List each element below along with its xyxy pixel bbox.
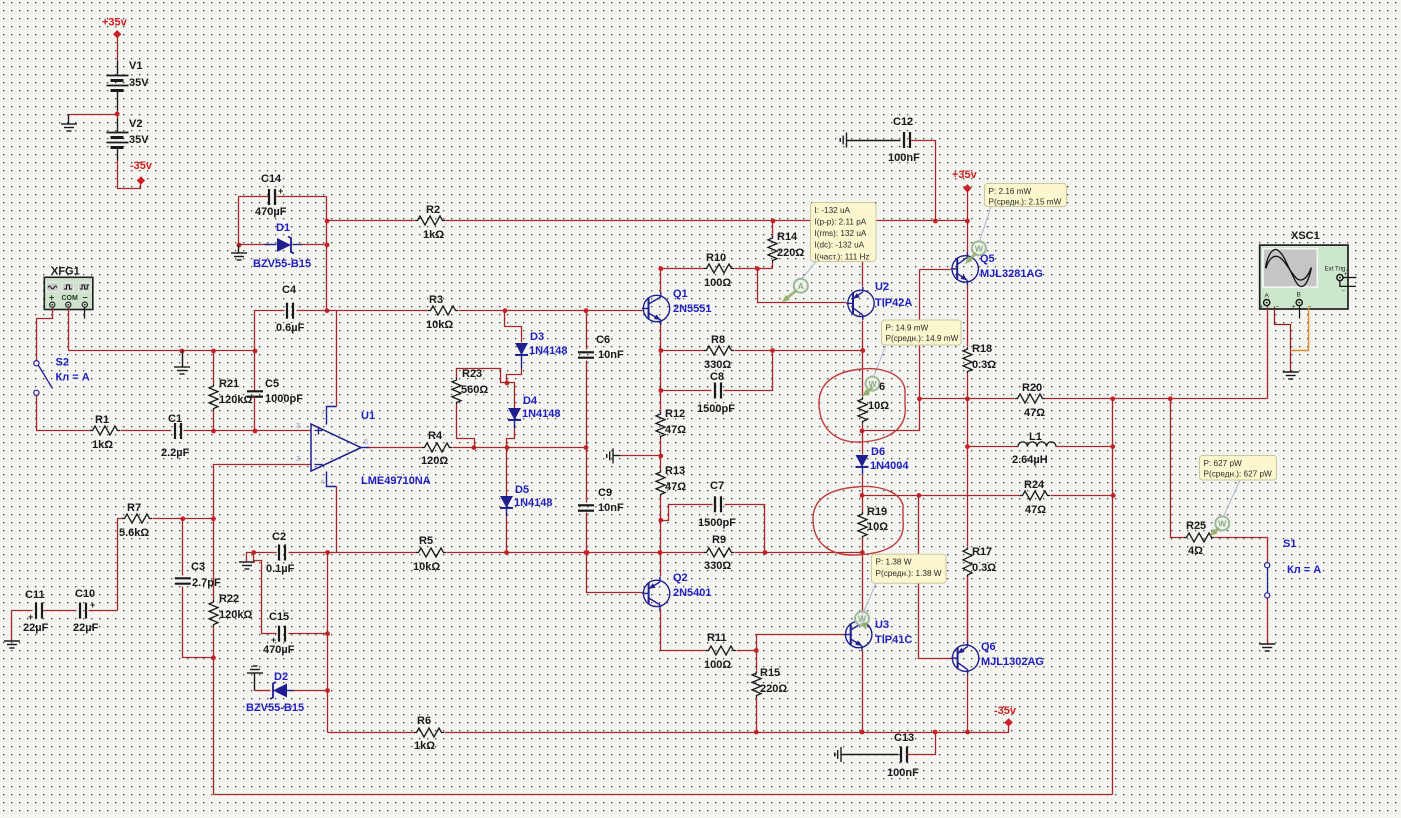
wire Q6 emitter up xyxy=(967,577,969,642)
inductor L1 xyxy=(1012,431,1056,466)
battery V1 xyxy=(107,60,150,111)
svg-text:R21: R21 xyxy=(219,378,239,390)
svg-text:+: + xyxy=(49,293,54,303)
wire L1 left xyxy=(968,446,1019,448)
svg-text:R10: R10 xyxy=(706,252,726,264)
resistor R6 xyxy=(414,715,444,752)
wire Q2 base jog xyxy=(587,553,643,593)
wire R13 bottom xyxy=(660,497,662,553)
wire R15 bottom xyxy=(756,698,758,733)
wire R23 bottom xyxy=(457,405,475,448)
wire C3 top lead xyxy=(182,519,184,576)
capacitor C3 xyxy=(175,561,221,589)
transistor Q6 MJL1302AG xyxy=(951,641,1044,675)
annotation circle around R19 xyxy=(813,487,903,556)
svg-text:R12: R12 xyxy=(665,408,685,420)
wire C8 row left xyxy=(661,390,712,392)
wire C9 bottom xyxy=(586,513,588,553)
resistor R2 xyxy=(415,204,445,241)
readout P R25 xyxy=(1200,456,1277,517)
wire C11-C10 xyxy=(45,610,77,612)
resistor R14 xyxy=(768,221,804,263)
ground C2 xyxy=(239,553,255,570)
svg-text:R11: R11 xyxy=(707,632,727,644)
wire D5 to R5 row xyxy=(506,517,508,553)
resistor R9 xyxy=(704,534,734,572)
wire C6 top xyxy=(586,311,588,350)
wire D4 branch xyxy=(507,383,515,409)
wire R21 lower lead xyxy=(213,411,215,431)
op-amp U1 bottom pin xyxy=(321,472,337,487)
svg-text:+: + xyxy=(1344,272,1348,278)
capacitor C5 xyxy=(247,378,303,405)
wire XFG1 + to S2 xyxy=(37,308,53,361)
junction R25 branch xyxy=(1168,396,1173,401)
svg-text:1500pF: 1500pF xyxy=(697,403,735,415)
wire Q5 emitter xyxy=(967,286,969,347)
ground C13 xyxy=(835,747,899,762)
wire R12-R13 xyxy=(660,439,662,471)
svg-text:P(средн.): 2.15 mW: P(средн.): 2.15 mW xyxy=(989,197,1062,206)
svg-text:1kΩ: 1kΩ xyxy=(414,740,435,752)
svg-text:D1: D1 xyxy=(276,222,290,234)
wire XSC1 B- orange xyxy=(1291,307,1309,351)
wire R2 row left xyxy=(327,220,415,222)
junction R8 row xyxy=(658,348,663,353)
zener diode D2 xyxy=(246,671,304,714)
wire C2 right xyxy=(289,552,328,554)
resistor R4 xyxy=(421,430,452,467)
junction R21 bottom xyxy=(211,429,216,434)
probe A current xyxy=(782,279,808,302)
svg-text:−: − xyxy=(1276,305,1280,311)
junction D2 on trunk xyxy=(325,688,330,693)
svg-text:10kΩ: 10kΩ xyxy=(426,319,453,331)
junction R18 on output row xyxy=(965,396,970,401)
svg-text:D6: D6 xyxy=(871,446,885,458)
capacitor C9 xyxy=(578,487,624,514)
wire C1 to U1+ xyxy=(184,430,311,432)
wire C12 to R2 row xyxy=(911,141,936,221)
zener diode D1 xyxy=(253,222,311,270)
svg-text:C9: C9 xyxy=(598,487,612,499)
svg-text:Q6: Q6 xyxy=(981,641,996,653)
wire C6-C9 mid xyxy=(586,361,588,503)
junction U2 base branch xyxy=(755,266,760,271)
transistor U2 TIP42A xyxy=(847,281,913,320)
resistor R18 xyxy=(963,343,996,374)
svg-text:C11: C11 xyxy=(25,589,45,601)
svg-text:TIP41C: TIP41C xyxy=(875,634,912,646)
wire D3 to junction xyxy=(507,369,522,383)
wire to U2 base xyxy=(758,269,847,303)
svg-text:I(p-p): 2.11 pA: I(p-p): 2.11 pA xyxy=(815,218,867,227)
resistor R3 xyxy=(426,294,458,331)
svg-text:100Ω: 100Ω xyxy=(704,277,731,289)
wire U1 pin2 row xyxy=(214,465,311,601)
junction C2 on trunk xyxy=(325,550,330,555)
svg-text:D5: D5 xyxy=(515,484,529,496)
resistor R7 xyxy=(119,502,152,539)
wire R4 row left xyxy=(369,447,423,449)
svg-text:7: 7 xyxy=(321,412,325,419)
svg-text:2.64µH: 2.64µH xyxy=(1012,454,1048,466)
svg-text:C5: C5 xyxy=(265,378,279,390)
junction Q6 base branch xyxy=(917,493,922,498)
svg-text:6: 6 xyxy=(879,381,885,393)
resistor R23 xyxy=(452,368,488,405)
resistor R10 xyxy=(704,252,734,289)
wire feedback down xyxy=(213,658,215,795)
svg-text:P: 1.38 W: P: 1.38 W xyxy=(876,558,912,567)
wire R18-R17 link xyxy=(967,399,969,547)
ground supply midpoint xyxy=(61,115,77,132)
svg-text:A: A xyxy=(798,281,804,291)
svg-text:220Ω: 220Ω xyxy=(777,247,804,259)
wire XFG1 COM down xyxy=(68,308,70,351)
transistor U3 TIP41C xyxy=(844,618,912,651)
svg-text:10Ω: 10Ω xyxy=(867,521,888,533)
svg-text:1N4148: 1N4148 xyxy=(522,408,561,420)
wire Q1 collector xyxy=(660,269,662,293)
svg-text:I(част.): 111 Hz: I(част.): 111 Hz xyxy=(815,252,870,261)
wire C13 to -35 bus xyxy=(907,733,936,755)
junction D5 on R5 row xyxy=(504,550,509,555)
svg-text:R1: R1 xyxy=(95,414,109,426)
junction C9 on R5 row xyxy=(584,550,589,555)
wire output row left xyxy=(920,398,1015,400)
wire R5 row left xyxy=(328,552,417,554)
svg-text:47Ω: 47Ω xyxy=(1025,504,1046,516)
wire C4 right xyxy=(297,310,327,312)
diode D6 1N4004 xyxy=(856,446,910,475)
op-amp U1 top pin xyxy=(321,407,337,425)
resistor R20 xyxy=(1015,382,1045,419)
svg-text:R14: R14 xyxy=(777,231,798,243)
svg-text:22µF: 22µF xyxy=(23,622,49,634)
wire XSC1 channel A xyxy=(1267,307,1269,399)
svg-text:P: 14.9 mW: P: 14.9 mW xyxy=(886,323,929,332)
wire D1 cathode to trunk xyxy=(301,244,327,246)
capacitor C4 xyxy=(276,284,305,334)
svg-text:R6: R6 xyxy=(417,715,431,727)
wire D2 anode lead xyxy=(255,690,271,692)
svg-text:1kΩ: 1kΩ xyxy=(423,229,444,241)
wire S2 to R1 xyxy=(37,396,91,431)
wire D3 branch xyxy=(505,311,522,343)
junction R7/C3 row xyxy=(211,516,216,521)
junction C4/C5 corner xyxy=(253,349,258,354)
wire +35v down to Q5 xyxy=(967,191,969,257)
wire XFG1 - stub xyxy=(84,308,86,319)
svg-text:W: W xyxy=(1218,519,1227,529)
readout P Q5 xyxy=(980,184,1067,242)
node -35v rail label xyxy=(130,160,153,185)
wire R24 right xyxy=(1051,495,1114,497)
diode D5 1N4148 xyxy=(500,484,553,517)
svg-text:R25: R25 xyxy=(1186,520,1206,532)
wire C14 right to trunk xyxy=(277,196,327,198)
junction mid ground xyxy=(658,454,663,459)
wire R10 row xyxy=(661,268,705,270)
svg-text:120kΩ: 120kΩ xyxy=(219,609,252,621)
ground D2 (inverted) xyxy=(247,666,263,691)
readout P R16 xyxy=(874,320,962,377)
wire R1 to C1 xyxy=(121,430,172,432)
resistor R8 xyxy=(704,334,734,371)
wire C15 feed xyxy=(254,553,277,634)
resistor R24 xyxy=(1020,479,1050,516)
svg-text:R23: R23 xyxy=(462,368,482,380)
junction Q1 collector R10 xyxy=(658,266,663,271)
junction C7 branch xyxy=(658,518,663,523)
wire C10 right xyxy=(89,610,118,612)
svg-text:I(dc): -132 uA: I(dc): -132 uA xyxy=(815,241,865,250)
junction C5 bottom xyxy=(253,429,258,434)
svg-text:10Ω: 10Ω xyxy=(868,400,889,412)
ground S1 xyxy=(1259,644,1275,651)
svg-text:R15: R15 xyxy=(760,667,780,679)
svg-text:MJL1302AG: MJL1302AG xyxy=(981,656,1044,668)
wire C4 riser xyxy=(255,311,285,351)
svg-text:C15: C15 xyxy=(269,611,289,623)
wire U3 collector riser xyxy=(862,553,864,619)
svg-text:R22: R22 xyxy=(219,593,239,605)
resistor R16 xyxy=(858,377,889,424)
wire C11 left xyxy=(12,610,33,612)
junction U2 emitter on R2 row xyxy=(860,219,865,224)
svg-text:R20: R20 xyxy=(1022,382,1042,394)
svg-text:Q2: Q2 xyxy=(673,572,688,584)
wire R5 row mid xyxy=(447,552,705,554)
svg-text:100nF: 100nF xyxy=(888,152,920,164)
svg-text:0.1µF: 0.1µF xyxy=(266,563,295,575)
svg-text:47Ω: 47Ω xyxy=(665,424,686,436)
ground C11 xyxy=(4,611,20,649)
wire bottom feedback bus xyxy=(214,794,1113,796)
svg-text:XSC1: XSC1 xyxy=(1291,230,1320,242)
capacitor C12 xyxy=(888,116,920,164)
svg-text:C2: C2 xyxy=(272,531,286,543)
resistor R12 xyxy=(656,408,686,439)
svg-text:47Ω: 47Ω xyxy=(665,481,686,493)
wire -35 bus right xyxy=(445,727,1009,733)
resistor R1 xyxy=(90,414,120,451)
op-amp U1 LME49710NA xyxy=(296,410,431,487)
svg-text:2N5401: 2N5401 xyxy=(673,587,712,599)
junction L1 tap xyxy=(965,444,970,449)
svg-text:120Ω: 120Ω xyxy=(421,455,448,467)
wire R9 right xyxy=(735,552,863,554)
wire U3 base xyxy=(757,635,845,651)
svg-text:2.7pF: 2.7pF xyxy=(192,577,221,589)
wire V1-V2 junction xyxy=(117,111,119,119)
wire L1 right xyxy=(1057,446,1113,448)
svg-text:+35v: +35v xyxy=(102,17,128,29)
ground input row xyxy=(174,351,190,375)
svg-text:C1: C1 xyxy=(168,413,182,425)
svg-text:10nF: 10nF xyxy=(598,349,624,361)
svg-text:R4: R4 xyxy=(428,430,443,442)
junction Q2 collector xyxy=(658,550,663,555)
svg-text:L1: L1 xyxy=(1029,431,1042,443)
diode D4 1N4148 xyxy=(508,395,561,429)
svg-text:D4: D4 xyxy=(523,395,538,407)
wire R8 row right xyxy=(735,350,863,352)
wire C14 left xyxy=(239,196,269,198)
wire R2 row right xyxy=(445,220,968,222)
transistor Q2 2N5401 xyxy=(642,572,711,610)
junction R8 on U2 collector xyxy=(860,348,865,353)
wire R3 row right to Q1 base xyxy=(459,310,643,312)
wire Q2 emitter to R11 xyxy=(661,610,707,651)
svg-text:R2: R2 xyxy=(426,204,440,216)
resistor R17 xyxy=(963,546,996,577)
wire C5 top xyxy=(254,351,256,391)
junction R19 top xyxy=(860,493,865,498)
wire trunk2 xyxy=(327,553,329,733)
svg-text:5.6kΩ: 5.6kΩ xyxy=(119,527,149,539)
svg-text:+: + xyxy=(1260,305,1264,311)
svg-text:−: − xyxy=(83,293,88,303)
transistor Q1 2N5551 xyxy=(642,288,712,325)
svg-text:470µF: 470µF xyxy=(255,206,287,218)
annotation circle around R16 xyxy=(819,369,905,442)
wire C15 right xyxy=(289,633,328,635)
svg-text:10nF: 10nF xyxy=(598,502,624,514)
svg-text:C8: C8 xyxy=(710,371,724,383)
svg-text:C4: C4 xyxy=(282,284,297,296)
wire R16 to bias riser xyxy=(863,270,920,431)
wire D1 anode xyxy=(239,244,271,246)
junction D3 branch xyxy=(503,308,508,313)
junction C8 row xyxy=(658,388,663,393)
svg-text:P(средн.): 14.9 mW: P(средн.): 14.9 mW xyxy=(886,334,959,343)
wire Q1 emitter down xyxy=(660,325,662,413)
junction D3/D4/R23 xyxy=(505,381,510,386)
resistor R13 xyxy=(656,465,686,497)
function generator XFG1 xyxy=(44,266,93,310)
svg-text:LME49710NA: LME49710NA xyxy=(361,475,431,487)
wire D5 branch top xyxy=(506,448,508,497)
wire R11 right xyxy=(737,650,757,652)
wire U2 collector down xyxy=(862,321,864,397)
svg-text:-35v: -35v xyxy=(994,705,1017,717)
wire R10 right to R14 xyxy=(735,268,773,270)
svg-text:I(rms): 132 uA: I(rms): 132 uA xyxy=(815,229,867,238)
svg-text:2.2µF: 2.2µF xyxy=(161,447,190,459)
switch S2 xyxy=(34,357,90,396)
wire C7 left jog xyxy=(661,505,713,521)
svg-text:10kΩ: 10kΩ xyxy=(413,561,440,573)
capacitor C13 xyxy=(887,732,919,779)
svg-text:V2: V2 xyxy=(129,118,142,130)
svg-text:100Ω: 100Ω xyxy=(704,659,731,671)
wire XSC1 A- to ground xyxy=(1275,307,1291,373)
svg-text:B: B xyxy=(1297,292,1301,299)
svg-text:S2: S2 xyxy=(56,357,69,369)
wire R25 to S1 xyxy=(1215,538,1268,563)
junction R9 on U3 riser xyxy=(860,550,865,555)
junction R21 top xyxy=(211,349,216,354)
svg-text:W: W xyxy=(868,379,877,389)
svg-text:+: + xyxy=(28,612,33,622)
junction R14 top xyxy=(771,219,776,224)
svg-text:D3: D3 xyxy=(530,331,544,343)
junction ground input row xyxy=(180,349,185,354)
wire COM row xyxy=(69,350,255,352)
wire mid ground link xyxy=(621,455,661,457)
wire R21 leads xyxy=(213,351,215,385)
resistor R15 xyxy=(752,651,787,698)
op-amp output stub xyxy=(361,447,371,449)
wire R17 bottom xyxy=(967,577,969,643)
junction C6 trunk top xyxy=(584,308,589,313)
wire right trunk xyxy=(1112,399,1114,795)
svg-text:U1: U1 xyxy=(361,410,375,422)
svg-text:−: − xyxy=(1342,289,1346,295)
svg-text:+: + xyxy=(90,600,95,610)
wire trunk C14/D1/C4 xyxy=(326,197,328,311)
wire U1 V- feed xyxy=(336,487,338,553)
capacitor C8 xyxy=(697,371,735,415)
wire XSC1 B+ stub xyxy=(1299,307,1301,319)
svg-text:220Ω: 220Ω xyxy=(760,683,787,695)
ground C12 xyxy=(840,133,900,148)
resistor R21 xyxy=(209,378,252,411)
resistor R25 xyxy=(1184,520,1214,557)
wire V2 to -35v xyxy=(118,161,141,189)
svg-text:0.3Ω: 0.3Ω xyxy=(972,359,996,371)
svg-text:+: + xyxy=(1292,305,1296,311)
junction trunk R2 row xyxy=(325,219,330,224)
junction D1 left xyxy=(237,243,242,248)
wire Q2 collector up xyxy=(660,553,662,577)
capacitor C7 xyxy=(698,480,736,529)
junction R15 on -35 bus xyxy=(754,730,759,735)
node +35v right xyxy=(952,169,978,193)
svg-text:BZV55-B15: BZV55-B15 xyxy=(253,258,311,270)
capacitor C11 xyxy=(23,589,49,634)
wire R24 row xyxy=(863,495,1021,497)
wire D6 bottom xyxy=(862,475,864,496)
svg-text:35V: 35V xyxy=(129,77,149,89)
svg-text:R7: R7 xyxy=(127,502,141,514)
resistor R11 xyxy=(704,632,736,671)
svg-text:22µF: 22µF xyxy=(73,622,99,634)
svg-text:R19: R19 xyxy=(867,506,887,518)
wire R14 bottom xyxy=(772,263,774,269)
svg-text:S1: S1 xyxy=(1283,538,1296,550)
junction U3 on -35 bus xyxy=(860,730,865,735)
junction R11/R15/U3 xyxy=(754,648,759,653)
svg-text:560Ω: 560Ω xyxy=(461,384,488,396)
svg-text:C3: C3 xyxy=(191,561,205,573)
svg-text:P(средн.): 1.38 W: P(средн.): 1.38 W xyxy=(876,569,942,578)
svg-text:1N4004: 1N4004 xyxy=(870,460,909,472)
svg-text:4: 4 xyxy=(321,479,325,486)
resistor R5 xyxy=(413,535,446,573)
capacitor C6 xyxy=(578,334,624,361)
wire C3 bottom lead xyxy=(183,587,214,658)
svg-text:330Ω: 330Ω xyxy=(704,359,731,371)
svg-text:+: + xyxy=(278,186,283,196)
wire U1 V+ feed xyxy=(336,311,338,407)
junction R4 row C6 trunk xyxy=(584,445,589,450)
svg-text:6: 6 xyxy=(364,439,368,446)
svg-text:+35v: +35v xyxy=(952,169,978,181)
junction trunk C4/R3 row xyxy=(325,308,330,313)
